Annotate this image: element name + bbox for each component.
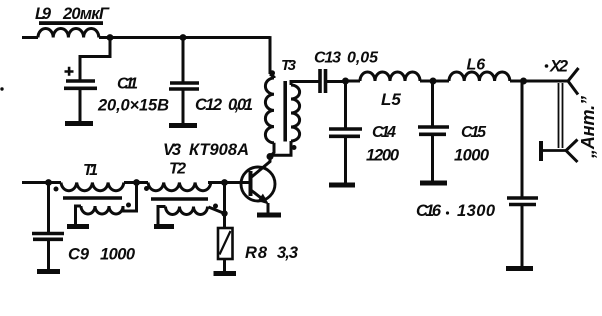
- svg-text:КТ908А: КТ908А: [189, 141, 249, 159]
- svg-text:1300: 1300: [457, 202, 496, 220]
- wire bottom rail: [22, 181, 61, 184]
- ground (R8): [214, 271, 237, 276]
- wire C11 branch: [80, 38, 110, 80]
- svg-text:С12: С12: [195, 96, 222, 114]
- wire T2 to base: [208, 181, 249, 184]
- svg-text:0,01: 0,01: [228, 96, 253, 114]
- inductor L9: [35, 5, 110, 38]
- inductor L5: [360, 72, 420, 109]
- node B (C12 junction): [180, 34, 187, 41]
- svg-text:R8: R8: [245, 244, 268, 262]
- node I (L5/C15/L6): [430, 78, 437, 85]
- ground (C11): [65, 121, 93, 126]
- transformer T3: [265, 57, 318, 156]
- svg-text:3,3: 3,3: [277, 244, 298, 262]
- svg-text:1000: 1000: [100, 246, 136, 264]
- ground (C16): [506, 266, 533, 271]
- ground (C15): [420, 181, 447, 186]
- node C (collector node): [267, 153, 274, 160]
- wire node H to L5: [346, 80, 361, 83]
- capacitor C14: [329, 81, 400, 183]
- wire between T1 and T2: [124, 181, 148, 184]
- svg-text:С14: С14: [372, 124, 396, 141]
- wire L6 to X2: [510, 80, 568, 83]
- ground (T1 secondary): [67, 224, 89, 229]
- svg-text:L6: L6: [467, 57, 486, 74]
- svg-text:Т2: Т2: [169, 161, 186, 178]
- svg-text:„Ант.”: „Ант.”: [578, 96, 598, 159]
- node (stray mark left edge): [0, 87, 3, 90]
- svg-text:С15: С15: [461, 124, 487, 141]
- ground (C9): [37, 269, 60, 274]
- wire L5 to node I: [420, 80, 449, 83]
- node D (C9 junction): [45, 179, 52, 186]
- svg-text:Т3: Т3: [281, 57, 297, 74]
- svg-text:L5: L5: [381, 90, 401, 109]
- connector X2: [541, 58, 579, 163]
- capacitor C15: [418, 81, 490, 181]
- svg-text:С9: С9: [68, 246, 90, 264]
- wire R8 branch: [223, 183, 226, 228]
- capacitor C12: [169, 38, 253, 124]
- resistor R8: [218, 228, 298, 272]
- node G (T2 secondary / R8): [221, 210, 227, 216]
- transformer T2: [144, 161, 225, 225]
- svg-text:20мкГ: 20мкГ: [62, 5, 110, 23]
- ground (T2 secondary): [154, 224, 174, 229]
- wire top rail drop to T3: [269, 36, 272, 74]
- svg-text:0,05: 0,05: [347, 50, 379, 67]
- capacitor C13: [314, 50, 379, 94]
- inductor L6: [449, 57, 510, 82]
- svg-text:С16: С16: [416, 202, 442, 220]
- capacitor C16: [416, 81, 538, 266]
- node H (C13/C14/L5): [342, 78, 349, 85]
- svg-text:1200: 1200: [366, 147, 400, 165]
- node (antenna label): [578, 96, 598, 159]
- svg-text:С11: С11: [117, 76, 138, 93]
- svg-text:V3: V3: [163, 141, 181, 159]
- node F (base / R8 junction): [221, 179, 228, 186]
- capacitor C11 (electrolytic, +): [64, 67, 169, 121]
- ground (emitter): [257, 213, 281, 218]
- svg-text:Х2: Х2: [549, 58, 568, 76]
- node A (L9 / C11 junction): [107, 34, 114, 41]
- transformer T1: [54, 162, 137, 225]
- transistor V3 KT908A: [163, 141, 275, 213]
- svg-text:С13: С13: [314, 50, 341, 67]
- node E (T1/T2 junction): [133, 179, 140, 186]
- svg-text:20,0×15В: 20,0×15В: [97, 97, 169, 115]
- ground (C12): [169, 123, 197, 128]
- ground (C14): [329, 183, 355, 188]
- svg-text:Т1: Т1: [83, 162, 98, 179]
- svg-text:L9: L9: [35, 5, 52, 23]
- wire top rail left: [22, 36, 270, 39]
- capacitor C9: [32, 183, 136, 270]
- node J (L6/C16/X2): [520, 78, 527, 85]
- svg-text:1000: 1000: [454, 147, 490, 165]
